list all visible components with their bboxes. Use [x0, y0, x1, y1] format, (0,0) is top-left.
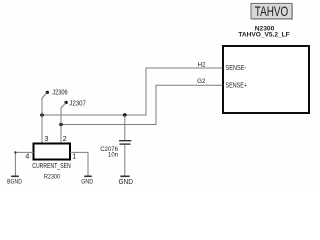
resistor label CURRENT_SEN — [32, 163, 71, 170]
wire pin 4 — [14, 151, 33, 175]
svg-text:TAHVO_V5.2_LF: TAHVO_V5.2_LF — [238, 31, 289, 38]
resistor refdes R2300 — [44, 173, 60, 180]
wire pin 3 — [41, 115, 43, 143]
svg-text:GND: GND — [118, 177, 133, 186]
pin name SENSE- — [226, 65, 247, 72]
svg-text:BGND: BGND — [7, 178, 22, 185]
svg-text:3: 3 — [44, 134, 48, 143]
svg-text:CURRENT_SEN: CURRENT_SEN — [32, 163, 71, 170]
svg-text:SENSE-: SENSE- — [226, 65, 247, 72]
pin number 1 — [72, 151, 76, 160]
svg-text:4: 4 — [25, 151, 29, 160]
wire SENSE+ net — [61, 85, 223, 124]
reference designator N2300 — [255, 25, 275, 32]
ground GND (pin 1) — [81, 176, 93, 185]
svg-text:G2: G2 — [197, 78, 206, 85]
svg-text:2: 2 — [63, 134, 67, 143]
svg-text:J2306: J2306 — [52, 87, 67, 96]
svg-text:R2300: R2300 — [44, 173, 60, 180]
wire pin 1 — [70, 152, 88, 175]
wire SENSE- net — [42, 68, 223, 115]
value label TAHVO_V5.2_LF — [238, 31, 289, 38]
svg-text:TAHVO: TAHVO — [255, 3, 289, 19]
block title TAHVO — [251, 3, 293, 20]
pin number H2 — [197, 62, 206, 69]
resistor R2300 body — [34, 144, 71, 160]
svg-text:SENSE+: SENSE+ — [226, 83, 248, 90]
svg-text:H2: H2 — [197, 62, 206, 69]
junction at pin 3 / SENSE- — [40, 113, 44, 117]
pin number 4 — [25, 151, 29, 160]
pin number 3 — [44, 134, 48, 143]
test point J2307 — [61, 98, 86, 124]
svg-text:J2307: J2307 — [69, 98, 85, 107]
junction at capacitor / SENSE- — [123, 113, 127, 117]
pin name SENSE+ — [226, 83, 248, 90]
junction at pin 2 / SENSE+ — [59, 123, 63, 127]
svg-text:1: 1 — [72, 151, 76, 160]
svg-text:GND: GND — [81, 179, 93, 186]
pin number 2 — [63, 134, 67, 143]
wire pin 2 — [60, 125, 62, 144]
svg-text:10n: 10n — [108, 151, 118, 158]
ground GND (capacitor) — [118, 176, 133, 186]
ground BGND — [7, 176, 22, 185]
IC N2300 body — [223, 46, 309, 113]
pin number G2 — [197, 78, 206, 85]
capacitor C2076 — [100, 115, 131, 176]
test point J2306 — [42, 87, 68, 115]
